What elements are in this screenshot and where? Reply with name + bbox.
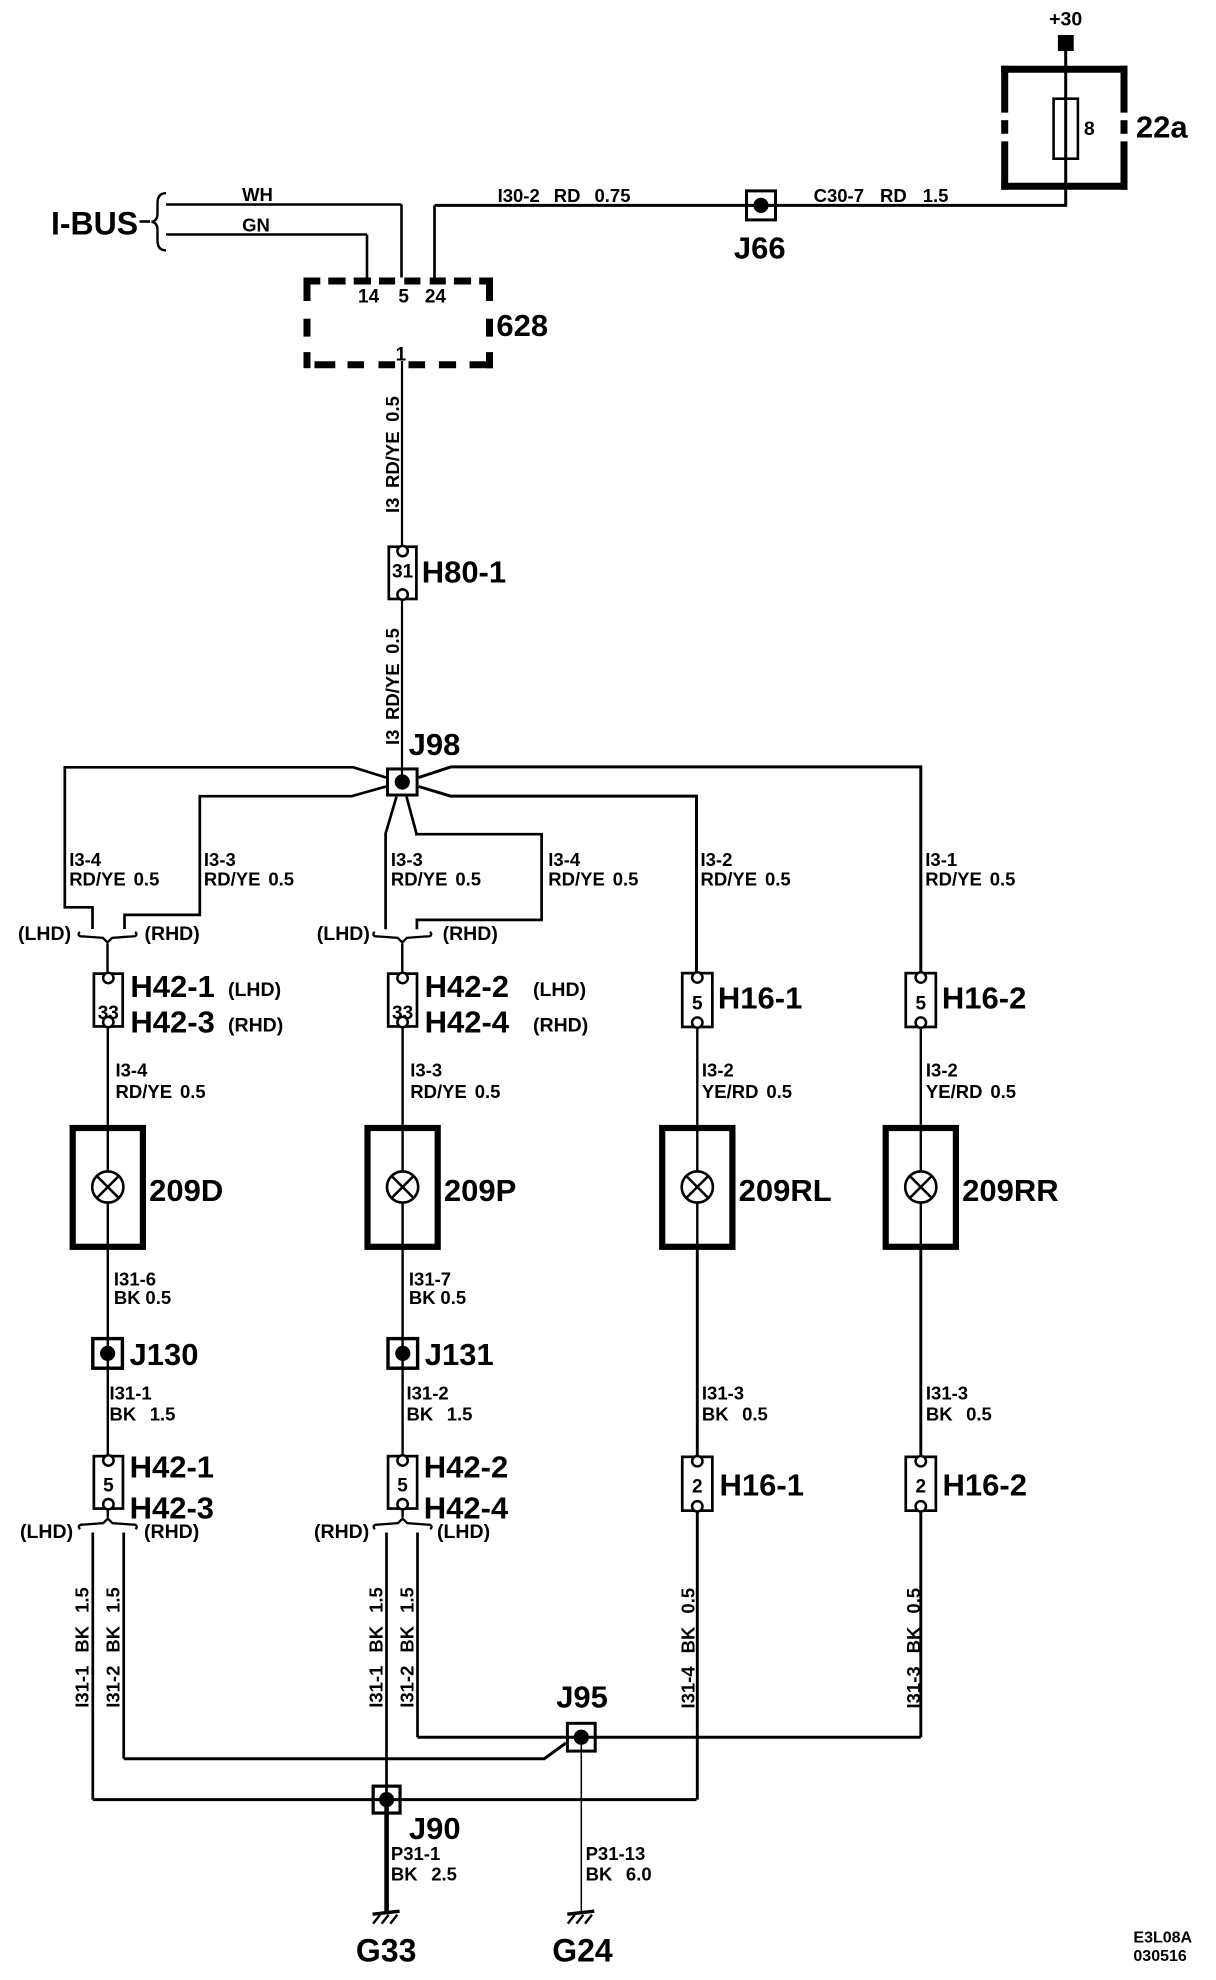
svg-text:G24: G24 [552, 1933, 613, 1969]
svg-text:I31-1BK1.5: I31-1BK1.5 [365, 1587, 386, 1708]
svg-text:I31-2: I31-2 [407, 1382, 449, 1403]
wire I3-4 branch to 209D (LHD) [65, 767, 386, 929]
svg-text:H16-2: H16-2 [943, 1468, 1027, 1503]
wire through J90 [93, 1798, 697, 1801]
svg-text:I31-4BK0.5: I31-4BK0.5 [678, 1588, 699, 1709]
LHD/RHD selector (lower 209P) [374, 1519, 432, 1530]
svg-text:(RHD): (RHD) [145, 923, 200, 945]
connector H16-2 pin 5 [906, 972, 936, 1027]
junction J131 [388, 1339, 418, 1369]
svg-text:8: 8 [1084, 118, 1095, 140]
connector H80-1 pin 31 [389, 546, 417, 600]
svg-text:209RL: 209RL [739, 1173, 832, 1208]
wire through J95 [418, 1736, 921, 1739]
wire WH [166, 203, 402, 206]
I-BUS dash [140, 220, 151, 223]
wire H16-2 lower down to J95 row [919, 1512, 922, 1737]
svg-text:YE/RD0.5: YE/RD0.5 [702, 1081, 792, 1102]
I-BUS brace [152, 193, 167, 250]
svg-text:(LHD): (LHD) [228, 979, 281, 1001]
svg-text:14: 14 [358, 287, 380, 308]
svg-text:5: 5 [398, 287, 409, 308]
svg-text:I3-4: I3-4 [548, 849, 581, 870]
wire WH drop to pin 5 [400, 205, 403, 278]
wire I30-2 drop to pin 24 [433, 205, 436, 277]
connector H42-2/H42-4 pin 5 [388, 1455, 417, 1509]
LHD/RHD selector (lower 209D) [79, 1519, 137, 1530]
svg-text:(LHD): (LHD) [533, 979, 586, 1001]
wire 209RR down to H16-2 lower [919, 1250, 922, 1456]
svg-text:RD/YE0.5: RD/YE0.5 [925, 868, 1015, 889]
svg-text:J130: J130 [130, 1337, 199, 1372]
svg-text:I3-3: I3-3 [391, 849, 423, 870]
svg-text:33: 33 [392, 1003, 413, 1024]
svg-text:RD/YE0.5: RD/YE0.5 [391, 868, 481, 889]
svg-text:209P: 209P [444, 1173, 516, 1208]
svg-text:RD/YE0.5: RD/YE0.5 [116, 1081, 206, 1102]
ground G33 [373, 1911, 400, 1923]
svg-text:24: 24 [425, 287, 447, 308]
svg-text:I31-2BK1.5: I31-2BK1.5 [396, 1587, 417, 1708]
svg-text:I-BUS: I-BUS [51, 205, 138, 241]
wire I31-2 to J95 [416, 1533, 419, 1738]
svg-text:I3-3: I3-3 [410, 1060, 442, 1081]
LHD/RHD selector (209D branch) [79, 932, 137, 943]
wire I31-1 (LHD) to J90 [91, 1533, 94, 1800]
svg-text:J90: J90 [409, 1811, 461, 1846]
svg-text:RD/YE0.5: RD/YE0.5 [204, 868, 294, 889]
svg-text:(LHD): (LHD) [317, 923, 370, 945]
svg-text:209D: 209D [149, 1173, 223, 1208]
wire J130 to H42 lower [107, 1353, 109, 1454]
svg-text:2: 2 [916, 1477, 927, 1498]
svg-text:WH: WH [242, 184, 273, 205]
svg-text:I3-4: I3-4 [116, 1060, 149, 1081]
wire I3-3 branch to 209P (LHD) [386, 797, 397, 930]
svg-text:H42-4: H42-4 [425, 1004, 510, 1039]
svg-text:I31-2BK1.5: I31-2BK1.5 [103, 1587, 124, 1708]
wire J131 to H42 lower [401, 1353, 403, 1454]
svg-text:H42-2: H42-2 [425, 969, 509, 1004]
junction J130 [93, 1339, 123, 1369]
svg-text:(RHD): (RHD) [228, 1015, 283, 1037]
svg-text:E3L08A: E3L08A [1133, 1930, 1192, 1947]
svg-text:I3-3: I3-3 [204, 849, 236, 870]
wire connector to lamp [107, 1028, 109, 1125]
svg-text:628: 628 [496, 308, 548, 343]
wire 209P to J131 [401, 1250, 403, 1354]
wire connector to lamp [696, 1028, 698, 1125]
junction J90 [373, 1786, 400, 1813]
wire GN [166, 233, 367, 236]
svg-text:RD/YE0.5: RD/YE0.5 [410, 1081, 500, 1102]
wire +30 to fuse box [1064, 51, 1067, 207]
connector H16-2 pin 2 [906, 1456, 936, 1512]
svg-text:I3-2: I3-2 [701, 849, 733, 870]
wire 209D to J130 [107, 1250, 109, 1354]
wire connector to lamp [401, 1028, 403, 1125]
svg-text:I31-3: I31-3 [702, 1382, 744, 1403]
wire I31-1 to J90 [385, 1533, 388, 1800]
svg-text:YE/RD0.5: YE/RD0.5 [926, 1081, 1016, 1102]
svg-text:I3-2: I3-2 [702, 1060, 734, 1081]
svg-text:(RHD): (RHD) [144, 1521, 199, 1543]
wire connector to lamp [920, 1028, 922, 1125]
svg-text:I3-4: I3-4 [69, 849, 102, 870]
svg-text:I31-3BK0.5: I31-3BK0.5 [903, 1588, 924, 1709]
junction J95 [567, 1723, 595, 1751]
wire through fuse [1064, 97, 1067, 160]
svg-text:5: 5 [397, 1475, 408, 1496]
svg-text:H42-2: H42-2 [424, 1450, 508, 1485]
control module 628 (dashed box) [304, 278, 494, 369]
connector H42-1/H42-3 pin 33 [94, 973, 123, 1027]
svg-text:J95: J95 [556, 1680, 608, 1715]
svg-text:(LHD): (LHD) [20, 1521, 73, 1543]
svg-text:I31-1: I31-1 [110, 1382, 152, 1403]
svg-text:I3-1: I3-1 [925, 849, 957, 870]
wire to H42-2/H42-4 [401, 944, 403, 972]
svg-text:209RR: 209RR [962, 1173, 1059, 1208]
svg-text:(LHD): (LHD) [18, 923, 71, 945]
wire H42 to selector [107, 1510, 109, 1518]
svg-text:I31-3: I31-3 [926, 1382, 968, 1403]
svg-text:33: 33 [98, 1003, 119, 1024]
lamp 209P [368, 1125, 517, 1250]
svg-text:H42-3: H42-3 [130, 1004, 214, 1039]
svg-text:5: 5 [916, 993, 927, 1014]
svg-text:GN: GN [242, 215, 270, 236]
wire I3 RD/YE [401, 361, 403, 545]
svg-text:RD/YE0.5: RD/YE0.5 [69, 868, 159, 889]
svg-text:5: 5 [692, 993, 703, 1014]
svg-text:H42-1: H42-1 [130, 1450, 214, 1485]
svg-text:J66: J66 [734, 230, 786, 265]
svg-text:H80-1: H80-1 [422, 554, 506, 589]
svg-text:5: 5 [103, 1475, 114, 1496]
svg-text:(RHD): (RHD) [314, 1521, 369, 1543]
lamp 209RL [662, 1125, 831, 1250]
wire I3-3 branch to 209D (RHD) [125, 787, 387, 930]
fuse element 8 [1054, 99, 1078, 159]
connector H16-1 pin 2 [682, 1456, 712, 1512]
svg-text:J131: J131 [425, 1337, 494, 1372]
connector H16-1 pin 5 [682, 972, 712, 1027]
wire I3-1 branch to H16-2 [419, 767, 921, 972]
svg-text:H42-1: H42-1 [130, 969, 214, 1004]
svg-text:I30-2RD0.75: I30-2RD0.75 [498, 185, 631, 206]
svg-text:RD/YE0.5: RD/YE0.5 [548, 868, 638, 889]
svg-text:RD/YE0.5: RD/YE0.5 [701, 868, 791, 889]
junction J66 [747, 191, 776, 220]
svg-text:H16-1: H16-1 [720, 1468, 804, 1503]
svg-text:(LHD): (LHD) [437, 1521, 490, 1543]
lamp 209RR [886, 1125, 1059, 1250]
svg-text:+30: +30 [1049, 9, 1082, 31]
junction J98 [388, 769, 418, 795]
lamp 209D [73, 1125, 224, 1250]
wire I31-2 (RHD) to J95 [122, 1533, 125, 1759]
svg-text:030516: 030516 [1133, 1948, 1186, 1965]
wire H16-1 lower down to J90 row [696, 1512, 699, 1800]
svg-text:I3-2: I3-2 [926, 1060, 958, 1081]
wire P31-13 BK 6.0 to G24 [580, 1737, 582, 1912]
wire I3-4 branch to 209P (RHD) [407, 797, 542, 930]
svg-text:31: 31 [392, 562, 414, 583]
LHD/RHD selector (209P branch) [373, 932, 431, 943]
svg-text:P31-1: P31-1 [391, 1843, 440, 1864]
svg-text:P31-13: P31-13 [586, 1843, 646, 1864]
svg-text:2: 2 [692, 1477, 703, 1498]
wire I3 RD/YE to J98 [401, 600, 403, 782]
fuse box 22a (dashed) [1001, 66, 1127, 190]
svg-text:H16-2: H16-2 [942, 980, 1026, 1015]
connector H42-2/H42-4 pin 33 [388, 973, 417, 1027]
svg-text:I31-1BK1.5: I31-1BK1.5 [72, 1587, 93, 1708]
svg-text:G33: G33 [356, 1933, 416, 1969]
wire I3-2 branch to H16-1 [419, 787, 697, 972]
wire to H42-1/H42-3 [106, 944, 108, 972]
svg-text:(RHD): (RHD) [533, 1015, 588, 1037]
wire I31-2 to J95 (diagonal) [124, 1743, 566, 1759]
wire H42 to selector [401, 1510, 403, 1518]
wire 209RL down to H16-1 lower [696, 1250, 699, 1456]
wire GN drop to pin 14 [366, 235, 369, 278]
svg-text:C30-7RD1.5: C30-7RD1.5 [814, 185, 949, 206]
svg-text:22a: 22a [1136, 110, 1188, 145]
+30 terminal square [1058, 35, 1074, 51]
svg-text:J98: J98 [409, 727, 461, 762]
ground G24 [567, 1911, 594, 1923]
connector H42-1/H42-3 pin 5 [94, 1455, 123, 1509]
svg-text:(RHD): (RHD) [443, 923, 498, 945]
wire P31-1 BK 2.5 to G33 [384, 1800, 389, 1912]
svg-text:H16-1: H16-1 [718, 980, 802, 1015]
wire C30-7 / I30-2 horizontal [435, 204, 1066, 207]
